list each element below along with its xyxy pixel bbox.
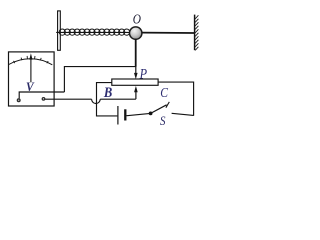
ball at O bbox=[130, 27, 142, 39]
voltmeter dial arc bbox=[9, 59, 53, 65]
rheostat track B-C bbox=[112, 79, 158, 85]
left support post bbox=[58, 11, 61, 50]
rod from ball to right wall bbox=[142, 32, 194, 34]
battery long plate bbox=[117, 106, 119, 125]
switch contact tick bbox=[166, 102, 169, 108]
svg-text:B: B bbox=[103, 84, 112, 100]
svg-text:S: S bbox=[160, 113, 166, 128]
wire: left terminal riser bbox=[19, 92, 64, 98]
svg-text:C: C bbox=[160, 85, 168, 100]
voltmeter right terminal bbox=[42, 97, 46, 101]
voltmeter box bbox=[9, 52, 55, 106]
bottom tap arrow onto track bottom bbox=[134, 86, 138, 92]
right wall bbox=[194, 15, 196, 51]
wire: left branch up to slider junction bbox=[64, 67, 135, 92]
slider wire down bbox=[135, 66, 137, 73]
right wall hatching bbox=[195, 15, 198, 50]
wire: right terminal toward hop bbox=[45, 98, 92, 100]
wire: switch to right riser bbox=[172, 113, 194, 115]
wire: C terminal to right riser bbox=[158, 82, 194, 116]
switch blade bbox=[151, 105, 167, 114]
rod from ball down to slider bbox=[135, 39, 137, 66]
spring coils bbox=[59, 29, 130, 35]
voltmeter left terminal bbox=[17, 98, 21, 102]
bottom tap wire bbox=[135, 92, 137, 99]
wire: hop to bottom tap bbox=[100, 98, 136, 100]
voltmeter dial ticks bbox=[14, 56, 49, 63]
switch pivot bbox=[149, 112, 153, 116]
battery short plate bbox=[124, 109, 126, 120]
wire: battery to switch bbox=[127, 114, 150, 116]
wire hop under B wire bbox=[92, 99, 101, 103]
slider arrow P onto track top bbox=[134, 73, 138, 79]
spring axis wire bbox=[56, 31, 130, 33]
wire: B terminal down to battery bbox=[97, 83, 118, 116]
voltmeter needle bbox=[30, 58, 32, 82]
svg-text:O: O bbox=[133, 12, 141, 27]
